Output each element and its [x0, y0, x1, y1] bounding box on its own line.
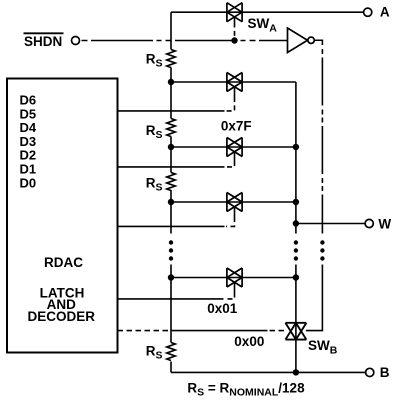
switch 4 gate stub: [234, 207, 236, 218]
inverter U2: [288, 28, 315, 53]
SWA gate stub: [234, 17, 236, 23]
wire: SWB gate row dashed part: [270, 330, 286, 332]
svg-text:W: W: [378, 216, 391, 231]
svg-text:D2: D2: [20, 148, 37, 163]
svg-text:D1: D1: [20, 162, 37, 177]
switch SWB (vertical): [285, 323, 306, 340]
junction dot tap 1 on string: [168, 79, 174, 85]
wire: tap 4 row: [171, 277, 296, 279]
terminal W circle: [365, 219, 373, 227]
wire: tap 2 row: [171, 146, 296, 148]
resistor RS4: [167, 343, 175, 361]
wire: SWB gate row solid part: [171, 330, 268, 332]
wire: decoder row to switch 4: [118, 225, 225, 227]
junction dot tap 2 on bus: [293, 144, 299, 150]
switch SWA: [227, 3, 242, 22]
junction dot tap 4 on bus: [293, 274, 299, 280]
switch 4 gate dashed L: [226, 217, 235, 226]
wiper bus vertical wire: [295, 82, 297, 372]
ellipsis dots on inverter drop line: [320, 240, 324, 260]
switch 2 gate stub: [234, 87, 236, 98]
svg-text:D0: D0: [20, 175, 37, 190]
RDAC latch and decoder block U1: [7, 79, 118, 353]
SHDN dash-dot wire to inverter: [82, 40, 288, 42]
svg-text:RDAC: RDAC: [44, 255, 83, 270]
wire: W terminal row: [296, 223, 365, 225]
switch 5 (0x01): [227, 268, 242, 287]
switch 5 gate stub: [234, 282, 236, 293]
svg-text:SHDN: SHDN: [24, 34, 62, 49]
wire: inverter output dash-dot drop: [321, 49, 323, 234]
wire: decoder row to switch 2: [118, 110, 225, 112]
svg-text:D6: D6: [20, 93, 37, 108]
svg-text:0x7F: 0x7F: [221, 118, 252, 133]
junction: SHDN node at SWA gate: [231, 37, 237, 43]
wire: decoder row to switch 3: [118, 166, 225, 168]
junction dot tap 4 on string: [168, 274, 174, 280]
switch 5 gate dashed L: [225, 293, 235, 299]
wire: B terminal row: [171, 371, 366, 373]
svg-text:0x01: 0x01: [207, 301, 238, 316]
SWA gate dashed wire: [234, 23, 236, 41]
switch 3 gate stub: [234, 152, 236, 162]
svg-text:D5: D5: [20, 106, 37, 121]
junction dot B row on bus: [293, 369, 299, 375]
ellipsis dots on wiper bus: [294, 240, 298, 260]
switch 3 gate dashed L: [225, 161, 235, 167]
wire: tap 3 row: [171, 201, 296, 203]
wire: inverter output corner: [314, 40, 322, 45]
switch 3 (0x7F): [227, 138, 242, 157]
junction dot tap 2 on string: [168, 144, 174, 150]
SHDN input terminal circle: [72, 37, 80, 45]
ellipsis dots on resistor string: [169, 240, 173, 260]
terminal B circle: [366, 368, 374, 376]
junction dot tap 3 on bus: [293, 199, 299, 205]
wire: inverter drop lower solid to SWB gate: [306, 265, 322, 331]
switch 2 (tap 0x7F row top): [227, 73, 242, 92]
svg-text:A: A: [380, 5, 390, 20]
svg-text:D4: D4: [20, 120, 37, 135]
resistor RS1: [167, 50, 175, 68]
svg-text:D3: D3: [20, 134, 37, 149]
wire: tap 1 row: [171, 81, 296, 83]
resistor RS3: [167, 173, 175, 191]
switch 2 gate dashed L: [225, 97, 235, 111]
resistor string vertical wire segments: [170, 12, 172, 372]
svg-text:DECODER: DECODER: [28, 309, 96, 324]
svg-text:B: B: [380, 365, 390, 380]
wire: decoder dashed row to SWB gate: [118, 330, 171, 332]
terminal A circle: [364, 8, 372, 16]
junction dot tap 3 on string: [168, 199, 174, 205]
resistor RS2: [167, 119, 175, 137]
SHDN input label with overline: [24, 33, 64, 49]
wire: top row from resistor string to terminal A: [171, 11, 363, 13]
switch 4: [227, 193, 242, 212]
wire: decoder row to switch 5: [118, 298, 224, 300]
junction dot W row: [293, 220, 299, 226]
svg-text:0x00: 0x00: [234, 334, 264, 349]
